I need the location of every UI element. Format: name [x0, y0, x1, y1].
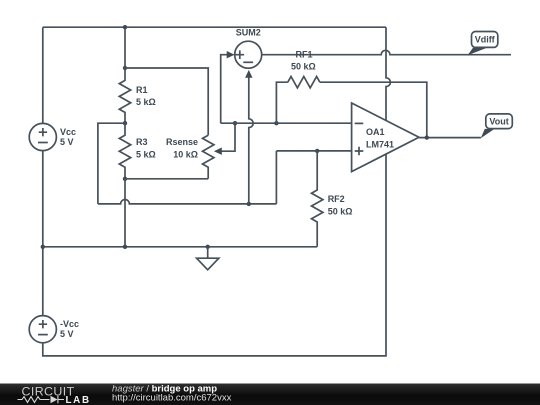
svg-text:LAB: LAB — [66, 395, 91, 405]
label Vcc 5 V — [60, 127, 76, 147]
resistor RF2 — [312, 151, 323, 247]
arrowhead into SUM2 minus input — [245, 70, 252, 78]
voltage source V1 Vcc — [29, 123, 56, 150]
flag Vdiff — [468, 32, 498, 56]
svg-text:5 kΩ: 5 kΩ — [136, 97, 156, 107]
svg-text:Vdiff: Vdiff — [475, 35, 496, 45]
wire from R1/R3 node left and down — [98, 123, 125, 204]
wiper arrowhead — [214, 148, 222, 155]
node junction RF2 top — [315, 149, 319, 153]
wire up to SUM2 plus input — [221, 55, 228, 124]
wiper wire of Rsense — [221, 123, 235, 151]
resistor RF1 — [288, 77, 320, 88]
svg-text:RF1: RF1 — [295, 50, 312, 60]
svg-text:10 kΩ: 10 kΩ — [173, 150, 198, 160]
wire supply line from top rail to op-amp V+ pin with hop — [386, 27, 390, 120]
wire RF1 right to feedback corner — [320, 82, 427, 137]
svg-text:R3: R3 — [136, 137, 148, 147]
logo resistor squiggle and diode — [18, 396, 65, 403]
label -Vcc 5 V — [60, 319, 79, 339]
wire left rail middle (Vcc- to -Vcc+) — [42, 151, 44, 316]
node junction R3 line to ground rail — [123, 245, 127, 249]
svg-text:5 V: 5 V — [60, 137, 74, 147]
label SUM2 — [236, 27, 261, 37]
ground symbol — [197, 245, 219, 270]
wire ground rail — [43, 246, 317, 248]
svg-text:LM741: LM741 — [366, 139, 394, 149]
wire op-amp plus input net — [276, 150, 351, 152]
flag Vout — [481, 114, 513, 138]
label OA1 LM741 — [366, 127, 394, 149]
wire bridge-left node horizontal with hop over R3 line — [98, 200, 277, 204]
svg-text:Rsense: Rsense — [166, 137, 198, 147]
wire Rsense bottom to R3 bottom — [125, 178, 208, 180]
label Rsense 10 kOhm — [166, 137, 198, 159]
node junction top of R1 — [123, 25, 127, 29]
footer bar — [0, 383, 540, 405]
wire SUM2 output to Vdiff with hop over supply line — [262, 50, 511, 54]
svg-text:http://circuitlab.com/c672vxx: http://circuitlab.com/c672vxx — [112, 393, 232, 404]
svg-text:50 kΩ: 50 kΩ — [328, 207, 353, 217]
wire R3 bottom to ground rail — [124, 179, 126, 247]
node junction R3 bottom — [123, 177, 127, 181]
op-amp plus sign — [355, 147, 364, 156]
wire Rsense top connection — [125, 68, 208, 135]
svg-text:Vout: Vout — [489, 117, 508, 127]
node junction SUM2 minus input branch — [247, 202, 251, 206]
svg-text:OA1: OA1 — [366, 127, 385, 137]
svg-text:SUM2: SUM2 — [236, 27, 261, 37]
label RF2 50 kOhm — [328, 194, 353, 216]
wire op-amp minus input net — [221, 122, 352, 124]
arrowhead into SUM2 plus input — [227, 51, 235, 58]
label R1 5 kOhm — [136, 85, 156, 107]
wire RF1 left branch — [276, 82, 287, 123]
wire SUM2 minus input vertical with hop — [249, 77, 253, 204]
wire left rail upper (top rail to Vcc+) — [42, 27, 44, 123]
svg-text:5 V: 5 V — [60, 329, 74, 339]
svg-text:RF2: RF2 — [328, 194, 345, 204]
wire up to op-amp plus input — [275, 151, 277, 204]
op-amp minus sign — [355, 122, 364, 124]
wire top rail — [43, 26, 386, 28]
svg-text:R1: R1 — [136, 85, 148, 95]
node junction output — [425, 135, 429, 139]
resistor R1 — [119, 68, 130, 123]
svg-text:Vcc: Vcc — [60, 127, 76, 137]
wire op-amp output — [419, 137, 481, 139]
label RF1 50 kOhm — [291, 50, 316, 72]
label R3 5 kOhm — [136, 137, 156, 159]
node junction wiper to minus wire — [233, 121, 237, 125]
svg-text:50 kΩ: 50 kΩ — [291, 61, 316, 71]
resistor R3 — [119, 123, 130, 179]
wire left rail bottom and bottom rail to op-amp V- pin — [43, 154, 386, 356]
voltage source V2 -Vcc — [29, 316, 56, 343]
op-amp OA1 triangle — [352, 103, 419, 172]
node junction RF1 branch on minus wire — [274, 121, 278, 125]
summer SUM2 — [235, 41, 262, 68]
svg-text:5 kΩ: 5 kΩ — [136, 150, 156, 160]
svg-text:-Vcc: -Vcc — [60, 319, 79, 329]
wire R1 branch from top rail — [124, 27, 126, 68]
potentiometer Rsense — [203, 135, 214, 179]
node junction left rail to ground rail — [41, 245, 45, 249]
node junction R1 top — [123, 66, 127, 70]
node junction between R1 and R3 — [123, 121, 127, 125]
